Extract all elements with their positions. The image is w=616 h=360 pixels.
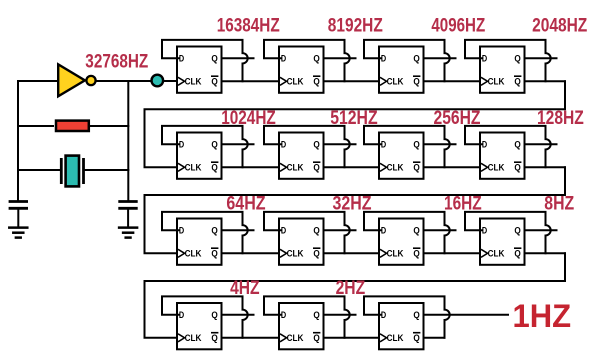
D flip-flop U13	[177, 303, 222, 349]
wire: row 3 to row 4 routing	[145, 253, 566, 337]
wire: inverter output to first CLK	[96, 80, 177, 82]
wire: U6 Q output	[324, 143, 356, 145]
svg-text:CLK: CLK	[287, 249, 304, 259]
wire: U5 Q output	[222, 143, 254, 145]
svg-text:Q: Q	[413, 77, 419, 87]
svg-text:CLK: CLK	[387, 77, 404, 87]
svg-text:CLK: CLK	[287, 333, 304, 343]
wire: U11 Qbar output	[424, 252, 482, 254]
wire: U7 Qbar output	[424, 166, 482, 168]
ground (right)	[119, 228, 137, 238]
svg-text:CLK: CLK	[185, 249, 202, 259]
wire: U15 feedback Qbar to D (with hop)	[364, 296, 450, 337]
wire: C1 to ground	[17, 208, 19, 226]
svg-text:Q: Q	[211, 77, 217, 87]
wire: crystal right lead	[84, 169, 129, 171]
svg-text:Q: Q	[211, 225, 217, 235]
resistor R1	[56, 121, 89, 131]
wire: U14 feedback Qbar to D (with hop)	[264, 296, 350, 337]
wire: inverter input	[18, 80, 58, 82]
svg-text:Q: Q	[211, 333, 217, 343]
D flip-flop U14	[279, 303, 324, 349]
wire: U11 Q output	[424, 229, 456, 231]
svg-text:Q: Q	[313, 333, 319, 343]
wire: crystal left lead	[18, 169, 60, 171]
wire: U2 Qbar output	[324, 80, 382, 82]
wire: U10 Q output	[324, 229, 356, 231]
wire: U12 Q output	[525, 229, 557, 231]
D flip-flop U11	[379, 219, 424, 265]
D flip-flop U1	[177, 47, 222, 93]
svg-text:CLK: CLK	[488, 249, 505, 259]
svg-text:Q: Q	[514, 53, 520, 63]
wire: U15 Qbar output	[424, 337, 445, 339]
svg-text:Q: Q	[514, 139, 520, 149]
svg-text:Q: Q	[211, 310, 217, 320]
D flip-flop U2	[279, 47, 324, 93]
wire: U8 Q output	[525, 143, 557, 145]
svg-text:8192HZ: 8192HZ	[328, 16, 383, 37]
D flip-flop U15	[379, 303, 424, 349]
svg-text:Q: Q	[313, 310, 319, 320]
wire: inverter input rail (left vertical)	[17, 81, 19, 200]
svg-text:Q: Q	[413, 249, 419, 259]
ground (left)	[9, 228, 27, 238]
wire: U13 Q output	[222, 314, 254, 316]
wire: U13 Qbar output	[222, 337, 280, 339]
svg-text:CLK: CLK	[488, 163, 505, 173]
wire: row 1 to row 2 routing	[145, 81, 566, 167]
svg-text:CLK: CLK	[287, 77, 304, 87]
wire: U3 Qbar output	[424, 80, 482, 82]
wire: U15 Q output	[424, 314, 509, 316]
wire: resistor right lead	[90, 125, 128, 127]
crystal Y1	[61, 156, 83, 187]
svg-text:Q: Q	[413, 225, 419, 235]
svg-text:Q: Q	[313, 163, 319, 173]
wire: right rail of oscillator	[127, 81, 129, 200]
wire: U14 Q output	[324, 314, 356, 316]
svg-text:Q: Q	[211, 249, 217, 259]
wire: U5 Qbar output	[222, 166, 280, 168]
svg-text:16384HZ: 16384HZ	[217, 16, 280, 37]
capacitor C2	[120, 202, 137, 209]
wire: U1 feedback Qbar to D (with hop)	[162, 40, 248, 81]
svg-text:Q: Q	[313, 225, 319, 235]
wire: U7 feedback Qbar to D (with hop)	[364, 126, 450, 167]
wire: U11 feedback Qbar to D (with hop)	[364, 212, 450, 253]
wire: U3 Q output	[424, 57, 456, 59]
wire: U4 Q output	[525, 57, 557, 59]
svg-text:CLK: CLK	[185, 333, 202, 343]
wire: U10 feedback Qbar to D (with hop)	[264, 212, 350, 253]
svg-text:Q: Q	[313, 53, 319, 63]
wire: U8 feedback Qbar to D (with hop)	[465, 126, 551, 167]
svg-text:Q: Q	[413, 139, 419, 149]
svg-text:Q: Q	[313, 77, 319, 87]
svg-text:CLK: CLK	[287, 163, 304, 173]
wire: U9 Qbar output	[222, 252, 280, 254]
wire: U13 feedback Qbar to D (with hop)	[162, 296, 248, 337]
D flip-flop U3	[379, 47, 424, 93]
svg-text:CLK: CLK	[185, 163, 202, 173]
wire: C2 to ground	[127, 208, 129, 226]
svg-text:Q: Q	[514, 249, 520, 259]
D flip-flop U6	[279, 133, 324, 179]
wire: U1 Q output	[222, 57, 254, 59]
svg-text:CLK: CLK	[387, 249, 404, 259]
wire: U3 feedback Qbar to D (with hop)	[364, 40, 450, 81]
svg-text:Q: Q	[211, 163, 217, 173]
D flip-flop U5	[177, 133, 222, 179]
svg-text:32768HZ: 32768HZ	[85, 52, 148, 73]
svg-text:CLK: CLK	[387, 333, 404, 343]
wire: U9 feedback Qbar to D (with hop)	[162, 212, 248, 253]
D flip-flop U10	[279, 219, 324, 265]
wire: U14 Qbar output	[324, 337, 382, 339]
wire: U4 feedback Qbar to D (with hop)	[465, 40, 551, 81]
wire: U2 feedback Qbar to D (with hop)	[264, 40, 350, 81]
svg-text:8HZ: 8HZ	[544, 194, 574, 215]
svg-text:Q: Q	[514, 163, 520, 173]
wire: U2 Q output	[324, 57, 356, 59]
capacitor C1	[10, 202, 27, 209]
wire: U4 Qbar output	[525, 80, 566, 82]
inverter U1 (NOT gate)	[58, 64, 95, 96]
svg-text:CLK: CLK	[488, 77, 505, 87]
svg-text:Q: Q	[413, 310, 419, 320]
wire: resistor left lead	[18, 125, 53, 127]
svg-text:1HZ: 1HZ	[513, 298, 572, 334]
wire: U6 Qbar output	[324, 166, 382, 168]
D flip-flop U4	[480, 47, 525, 93]
svg-text:CLK: CLK	[387, 163, 404, 173]
wire: U8 Qbar output	[525, 166, 566, 168]
wire: U7 Q output	[424, 143, 456, 145]
svg-text:Q: Q	[413, 53, 419, 63]
wire: U6 feedback Qbar to D (with hop)	[264, 126, 350, 167]
D flip-flop U8	[480, 133, 525, 179]
svg-text:Q: Q	[313, 249, 319, 259]
D flip-flop U9	[177, 219, 222, 265]
wire: U5 feedback Qbar to D (with hop)	[162, 126, 248, 167]
svg-text:Q: Q	[413, 163, 419, 173]
wire: U10 Qbar output	[324, 252, 382, 254]
svg-text:2048HZ: 2048HZ	[532, 16, 588, 37]
D flip-flop U12	[480, 219, 525, 265]
wire: U12 Qbar output	[525, 252, 566, 254]
wire: U9 Q output	[222, 229, 254, 231]
wire: U1 Qbar output	[222, 80, 280, 82]
svg-text:Q: Q	[413, 333, 419, 343]
D flip-flop U7	[379, 133, 424, 179]
svg-text:Q: Q	[313, 139, 319, 149]
wire: row 2 to row 3 routing	[145, 167, 566, 253]
wire: U12 feedback Qbar to D (with hop)	[465, 212, 551, 253]
svg-text:CLK: CLK	[185, 77, 202, 87]
svg-text:Q: Q	[514, 77, 520, 87]
svg-text:4096HZ: 4096HZ	[431, 16, 485, 37]
svg-text:Q: Q	[211, 53, 217, 63]
svg-text:Q: Q	[514, 225, 520, 235]
svg-text:Q: Q	[211, 139, 217, 149]
node: oscillator output junction	[152, 75, 164, 87]
